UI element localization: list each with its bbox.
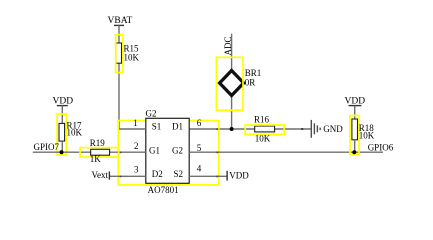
wire pin6 row to GND (189, 128, 311, 130)
power symbol VDD left (53, 97, 74, 124)
svg-text:Vext: Vext (92, 170, 109, 180)
resistor R16 (245, 114, 284, 143)
svg-text:G1: G1 (149, 145, 160, 155)
svg-text:GPIO7: GPIO7 (34, 142, 60, 152)
wire (231, 34, 233, 129)
wire pin5 row (189, 151, 383, 153)
svg-text:6: 6 (197, 118, 202, 128)
junction (352, 150, 356, 154)
pin 2 (110, 141, 146, 152)
pin 6 end marker (216, 128, 218, 130)
svg-text:AO7801: AO7801 (148, 185, 179, 195)
svg-text:2: 2 (134, 141, 139, 151)
resistor R15 (116, 35, 140, 73)
resistor R18 (350, 116, 375, 155)
svg-text:GND: GND (323, 124, 343, 134)
svg-text:3: 3 (134, 164, 139, 174)
ground (311, 120, 343, 138)
svg-text:S2: S2 (174, 169, 184, 179)
svg-text:1K: 1K (90, 154, 102, 164)
wire pin4 to VDD (189, 171, 249, 181)
pin 1 (119, 118, 146, 129)
svg-text:G2: G2 (146, 109, 157, 119)
IC G2 selection highlight (118, 121, 219, 185)
wire R18 down (354, 140, 356, 152)
svg-text:4: 4 (197, 163, 202, 173)
svg-text:R16: R16 (254, 114, 270, 124)
pin 3 (109, 164, 145, 176)
node Vext (92, 170, 110, 180)
svg-text:G2: G2 (172, 145, 183, 155)
resistor R17 (57, 114, 82, 155)
wire vertex marker (301, 128, 303, 130)
svg-text:VDD: VDD (229, 171, 249, 181)
svg-text:10K: 10K (67, 128, 83, 138)
junction (230, 127, 234, 131)
svg-text:GPIO6: GPIO6 (368, 142, 394, 152)
wire R17 down (61, 141, 63, 152)
svg-text:D2: D2 (152, 169, 163, 179)
power symbol VDD right (345, 97, 366, 120)
svg-text:0R: 0R (245, 78, 256, 88)
svg-text:1: 1 (133, 118, 138, 128)
node GPIO7 (33, 142, 91, 152)
svg-text:10K: 10K (359, 131, 375, 141)
resistor R19 (80, 138, 119, 164)
wire (118, 63, 120, 129)
power symbol VBAT (108, 16, 133, 43)
svg-text:VBAT: VBAT (108, 16, 133, 26)
junction (60, 150, 64, 154)
svg-text:R19: R19 (90, 138, 106, 148)
pin 4 end marker (216, 176, 218, 178)
svg-text:10K: 10K (124, 53, 140, 63)
pin 2 end marker (120, 151, 122, 153)
bridge BR1 (216, 57, 261, 110)
svg-text:10K: 10K (255, 133, 271, 143)
svg-text:D1: D1 (172, 122, 183, 132)
IC AO7801 body (146, 109, 190, 196)
pin 3 end marker (120, 176, 122, 178)
pin 5 end marker (216, 151, 218, 153)
svg-text:S1: S1 (152, 122, 162, 132)
